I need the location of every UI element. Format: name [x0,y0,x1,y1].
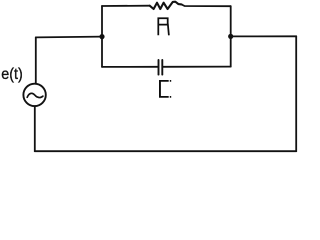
wire bottom horizontal [35,150,296,152]
wire left vertical lower [34,107,36,152]
node junction left [99,34,104,39]
wire capacitor right lead [163,66,230,68]
svg-text:e(t): e(t) [1,66,23,83]
wire right horizontal to junction [231,35,297,37]
label R [158,18,169,34]
wire capacitor left lead [102,66,158,68]
capacitor C right plate [161,60,163,75]
wire resistor left lead [102,5,150,7]
wire top-left horizontal [36,36,102,39]
node junction right [228,34,233,39]
label C [160,81,171,97]
source sine wave [27,93,43,97]
wire inner-left vertical [101,6,103,67]
resistor R zigzag [150,2,182,9]
source e(t) circle [23,84,45,106]
wire inner-right vertical [230,6,232,66]
wire resistor right lead [182,4,231,6]
capacitor C left plate [158,60,160,75]
wire right vertical outer [295,36,297,151]
wire left vertical upper [35,37,37,83]
